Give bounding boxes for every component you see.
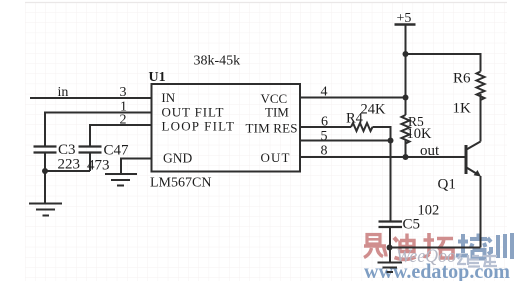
svg-text:C5: C5 (403, 217, 421, 233)
wire R4 node down to C5 (390, 141, 392, 222)
capacitor C3 (34, 147, 57, 153)
svg-text:U1: U1 (149, 70, 166, 85)
wire R5 to pin8 node (405, 140, 407, 158)
svg-text:R6: R6 (453, 71, 471, 87)
wire C5 bottom to ground (389, 227, 391, 262)
易 (364, 235, 386, 258)
resistor R5 (402, 115, 410, 144)
svg-text:8: 8 (321, 144, 328, 159)
svg-text:1K: 1K (453, 101, 472, 117)
svg-text:5: 5 (321, 129, 328, 144)
top border faint line (25, 2, 507, 4)
训 (488, 233, 513, 259)
svg-text:TIM: TIM (265, 105, 289, 120)
junction B (pin4/rail) (403, 95, 409, 101)
迪 (394, 234, 416, 260)
IC U1 box (152, 84, 301, 172)
svg-text:+5: +5 (397, 11, 412, 26)
ground (IC GND) (105, 174, 137, 186)
wire R6 to Q1 collector (480, 94, 482, 142)
wire to left ground (44, 171, 46, 203)
svg-text:TIM RES: TIM RES (246, 121, 298, 136)
wire GND pin to ground (121, 159, 151, 174)
svg-text:3: 3 (120, 85, 127, 100)
svg-text:LM567CN: LM567CN (150, 176, 211, 191)
wire pin6 to R4 (300, 126, 351, 128)
capacitor C47 (79, 147, 102, 153)
svg-text:C47: C47 (104, 143, 130, 159)
junction C (R4/pin5) (388, 138, 394, 144)
power +5 bar (395, 23, 416, 25)
svg-text:4: 4 (321, 85, 328, 100)
svg-text:OUT: OUT (261, 150, 290, 165)
ground (C5/emitter) (378, 263, 403, 273)
wire emitter bottom to C5 node (390, 247, 481, 249)
wire C3 bottom (44, 153, 46, 172)
svg-text:GND: GND (163, 151, 192, 166)
junction A (rail/R6) (403, 51, 409, 57)
transistor Q1 (465, 145, 468, 174)
wire +5 branch to R6 (406, 54, 481, 72)
svg-text:out: out (420, 143, 440, 159)
svg-text:38k-45k: 38k-45k (194, 54, 241, 69)
svg-text:in: in (58, 85, 69, 100)
wire R4 to corner down (373, 127, 391, 141)
junction E (C3/gnd) (42, 168, 48, 174)
培 (456, 234, 487, 259)
capacitor C5 (379, 222, 403, 228)
wire pin4 to +5 rail (300, 97, 406, 99)
wire pin1 to C3 (45, 113, 151, 147)
拓 (424, 233, 454, 258)
junction D (R5/pin8 out) (403, 154, 409, 160)
svg-text:10K: 10K (407, 126, 433, 142)
svg-text:2: 2 (120, 113, 127, 128)
resistor R4 (351, 123, 373, 131)
svg-text:102: 102 (418, 203, 440, 219)
svg-text:LOOP FILT: LOOP FILT (162, 119, 235, 134)
wire in to pin3 (30, 97, 151, 99)
wire pin2 to C47 (90, 125, 151, 146)
svg-text:Q1: Q1 (438, 177, 456, 193)
svg-text:6: 6 (321, 115, 328, 130)
wire pin8 to Q1 base (300, 156, 465, 158)
svg-text:473: 473 (87, 158, 110, 174)
svg-text:R4: R4 (346, 110, 364, 126)
watermark 易迪拓 (salmon CJK, drawn strokes) (364, 233, 453, 259)
wire C3-C47 bottom join (45, 170, 90, 172)
transistor Q1 emitter arrow (474, 170, 481, 177)
svg-text:OUT FILT: OUT FILT (162, 104, 224, 119)
ground (left) (29, 204, 62, 216)
wire C47 bottom (89, 153, 91, 172)
wire pin5 (300, 140, 391, 142)
wire +5 down (405, 25, 407, 116)
svg-text:IN: IN (161, 90, 175, 105)
svg-text:223: 223 (58, 157, 81, 173)
watermark 维库 (gray-blue, drawn strokes) (457, 254, 497, 267)
svg-text:24K: 24K (361, 102, 387, 118)
watermark 培训 (blue-gray CJK, drawn strokes) (456, 233, 512, 259)
resistor R6 (477, 72, 485, 101)
junction F (C5/emitter gnd) (387, 245, 393, 251)
